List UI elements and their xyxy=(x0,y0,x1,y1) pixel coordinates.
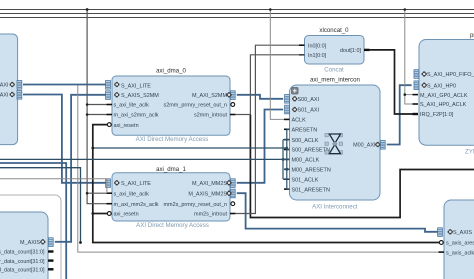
junction LA on reset vertical xyxy=(91,147,94,150)
svg-text:Concat: Concat xyxy=(324,67,344,74)
block left interconnect (partial) xyxy=(0,34,18,145)
wire clock/reset rail 1 xyxy=(0,9,474,11)
junction clock dma0 a xyxy=(86,103,89,106)
port stub fifo M_AXIS xyxy=(48,238,53,247)
svg-text:M_AXI_GP0_ACLK: M_AXI_GP0_ACLK xyxy=(420,93,468,99)
port stub ps7 S_AXI_HP0 xyxy=(414,81,419,90)
svg-text:s_axi_lite_aclk: s_axi_lite_aclk xyxy=(114,103,150,109)
port stub dma0 S_AXI_LITE xyxy=(106,81,111,90)
svg-text:S_AXI_LITE: S_AXI_LITE xyxy=(121,181,151,187)
wire clock branch dma0 lite aclk xyxy=(87,104,106,106)
wire LA vertical at intercon xyxy=(286,129,288,189)
wire B2 left_ic M01_AXI to dma1 S_AXI_LITE xyxy=(23,95,106,183)
port stub left_ic M01_AXI xyxy=(17,91,22,100)
junction LA M00_ARESETN xyxy=(285,168,288,171)
svg-text:s_axi_lite_aclk: s_axi_lite_aclk xyxy=(114,191,150,197)
junction L1 xyxy=(282,158,285,161)
svg-text:S01_ACLK: S01_ACLK xyxy=(292,177,319,183)
port stub fifo rd_data_count xyxy=(48,268,54,270)
port stub intercon M00_AXI xyxy=(380,141,385,150)
wire In1 upper from dma0 introut xyxy=(250,55,304,115)
svg-text:M_AXI_MM2S: M_AXI_MM2S xyxy=(192,181,227,187)
wire clock vertical to dma clocks xyxy=(87,10,106,204)
port stub dma0 s_axi_lite_aclk xyxy=(107,104,113,106)
svg-text:s_axis_aclk: s_axis_aclk xyxy=(446,250,474,256)
port stub intercon S00_AXI xyxy=(285,95,290,104)
svg-text:S00_AXI: S00_AXI xyxy=(298,97,320,103)
port stub fifo wr_data_count xyxy=(48,259,54,261)
svg-text:In1[0:0]: In1[0:0] xyxy=(308,53,327,59)
port stub dma1 axi_resetn bubble xyxy=(107,212,111,216)
wire B1 left_ic M00_AXI to dma0 S_AXI_LITE xyxy=(23,84,106,86)
svg-text:S_AXI_LITE: S_AXI_LITE xyxy=(121,83,151,89)
junction VA rail xyxy=(269,8,272,11)
port stub dma1 M_AXI_MM2S xyxy=(230,179,235,188)
port stub fifoR s_axis_aclk xyxy=(439,251,445,253)
port stub intercon ARESETN xyxy=(284,128,290,130)
wire L2 blue from left edge down xyxy=(0,163,66,279)
port stub intercon S01_ARESETN xyxy=(284,188,290,190)
junction clock dma0 b xyxy=(86,113,89,116)
wire K1 concat dout to ps7 IRQ_F2P xyxy=(369,50,413,114)
svg-text:M00_ARESETN: M00_ARESETN xyxy=(292,168,331,174)
wire VA rail to intercon ACLK xyxy=(270,10,284,120)
junction clock rail xyxy=(86,8,89,11)
port stub ps7 M_AXI_GP0_ACLK xyxy=(413,94,419,96)
wire L3 stub M00_ARESETN xyxy=(284,168,287,170)
wire LA reset trunk to intercon aresetns xyxy=(93,147,287,149)
svg-text:axis_wr_data_count[31:0]: axis_wr_data_count[31:0] xyxy=(0,259,45,265)
port stub ps7 IRQ_F2P (bus) xyxy=(413,113,419,115)
port stub concat dout (bus) xyxy=(364,49,370,51)
svg-text:axis_rd_data_count[31:0]: axis_rd_data_count[31:0] xyxy=(0,268,45,274)
svg-text:axi_dma_1: axi_dma_1 xyxy=(156,166,186,173)
wire B7 dma1 M_AXIS_MM2S to fifoR S_AXIS xyxy=(237,193,438,232)
junction LA corner xyxy=(285,147,288,150)
svg-text:M_AXIS: M_AXIS xyxy=(20,240,40,246)
junction reset dma1 xyxy=(91,212,94,215)
svg-text:AXI Interconnect: AXI Interconnect xyxy=(312,204,358,211)
wire aclk dogleg to dma1 lite clock xyxy=(0,179,107,193)
wire B4 dma0 M_AXI_S2MM to intercon S00_AXI xyxy=(237,95,283,99)
junction clock dma1 a xyxy=(86,192,89,195)
svg-text:AXI: AXI xyxy=(0,83,9,89)
port stub dma0 s2mm_introut xyxy=(230,114,236,116)
port stub intercon ACLK xyxy=(284,118,290,120)
wire clock2 vertical to fifoR aclk xyxy=(78,85,439,252)
block axi_mem_intercon xyxy=(290,77,381,211)
svg-text:AXI Direct Memory Access: AXI Direct Memory Access xyxy=(136,222,209,229)
port stub dma1 m_axi_mm2s_aclk xyxy=(107,203,113,205)
svg-text:axi_mem_intercon: axi_mem_intercon xyxy=(310,77,360,84)
svg-text:xlconcat_0: xlconcat_0 xyxy=(319,27,349,34)
port stub dma0 axi_resetn (active-low bubble) xyxy=(107,123,111,127)
svg-text:S00_ARESETN: S00_ARESETN xyxy=(292,148,330,154)
port stub intercon M00_ACLK xyxy=(284,158,290,160)
svg-text:S01_ARESETN: S01_ARESETN xyxy=(292,187,330,193)
wire clock branch dma1 lite aclk xyxy=(87,192,106,194)
wire B6 intercon M00_AXI to ps7 S_AXI_HP0 xyxy=(387,85,412,144)
port stub ps7 S_AXI_HP0_FIFO_CTRL xyxy=(414,70,419,79)
port stub intercon S00_ACLK xyxy=(284,139,290,141)
svg-text:mm2s_prmry_reset_out_n: mm2s_prmry_reset_out_n xyxy=(164,202,227,208)
wire ps7 clock branch gp0 xyxy=(405,94,413,96)
port stub dma1 mm2s_prmry_reset_out_n bubble xyxy=(231,202,235,206)
port stub dma0 S_AXIS_S2MM xyxy=(106,91,111,100)
port stub intercon S00_ARESETN xyxy=(284,149,290,151)
svg-text:M00_AXI: M00_AXI xyxy=(353,143,376,149)
port stub dma1 S_AXI_LITE xyxy=(106,179,111,188)
wire L1 clock from left edge to M00_ACLK xyxy=(0,158,290,160)
block processing_system7 (partial right) xyxy=(419,32,474,156)
svg-text:mm2s_introut: mm2s_introut xyxy=(194,212,227,218)
svg-text:axis_data_count[31:0]: axis_data_count[31:0] xyxy=(0,250,45,256)
svg-text:M00_ACLK: M00_ACLK xyxy=(292,158,320,164)
svg-text:S_AXIS_S2MM: S_AXIS_S2MM xyxy=(121,93,159,99)
svg-text:S00_ACLK: S00_ACLK xyxy=(292,138,319,144)
svg-text:m_axi_s2mm_aclk: m_axi_s2mm_aclk xyxy=(114,113,159,119)
wire rail 3 xyxy=(0,17,474,19)
svg-text:s_axis_aresetn: s_axis_aresetn xyxy=(446,241,474,247)
hierarchy boundary box around fifo xyxy=(0,195,61,279)
junction ps7 clock rail xyxy=(404,8,407,11)
svg-text:In0[0:0]: In0[0:0] xyxy=(308,43,327,49)
wire B3 fifo M_AXIS to dma0 S_AXIS_S2MM xyxy=(55,95,106,242)
wire K2 wrap net lower xyxy=(250,115,474,218)
svg-text:axi_resetn: axi_resetn xyxy=(114,123,139,129)
svg-text:M_AXIS_MM2S: M_AXIS_MM2S xyxy=(188,191,227,197)
port stub dma1 mm2s_introut xyxy=(230,213,236,215)
port stub dma1 s_axi_lite_aclk xyxy=(107,192,113,194)
block axi_dma_0 xyxy=(112,68,230,143)
wire B5 dma1 M_AXI_MM2S to intercon S01_AXI xyxy=(237,110,283,183)
svg-text:S_AXI_HP0: S_AXI_HP0 xyxy=(427,83,456,89)
wire rail 2 xyxy=(0,13,474,15)
port stub ps7 S_AXI_HP0_ACLK xyxy=(413,103,419,105)
port stub intercon S01_ACLK xyxy=(284,178,290,180)
port stub dma1 M_AXIS_MM2S xyxy=(230,189,235,198)
svg-text:AXI Direct Memory Access: AXI Direct Memory Access xyxy=(136,136,209,143)
port stub intercon M00_ARESETN xyxy=(284,168,290,170)
svg-text:AXI: AXI xyxy=(0,93,9,99)
svg-text:ACLK: ACLK xyxy=(292,118,307,124)
svg-text:ARESETN: ARESETN xyxy=(292,128,318,134)
port stub dma0 s2mm_prmry_reset_out_n bubble xyxy=(231,103,235,107)
wire K3 reset net xyxy=(93,125,440,243)
svg-text:axi_dma_0: axi_dma_0 xyxy=(156,68,186,75)
junction L3 xyxy=(285,168,288,171)
port stub fifoR S_AXIS xyxy=(438,228,443,237)
wire dma0 s2mm_introut branch xyxy=(235,114,250,116)
svg-text:processing_system7_0: processing_system7_0 xyxy=(470,32,474,39)
port stub fifoR s_axis_aresetn bubble xyxy=(439,241,443,245)
svg-text:s2mm_introut: s2mm_introut xyxy=(194,113,227,119)
svg-text:S_AXIS: S_AXIS xyxy=(453,230,472,236)
wire K3 branch dma1 resetn xyxy=(93,213,108,215)
svg-text:m_axi_mm2s_aclk: m_axi_mm2s_aclk xyxy=(114,202,159,208)
svg-text:dout[1:0]: dout[1:0] xyxy=(340,48,362,54)
port stub dma0 M_AXI_S2MM xyxy=(230,91,235,100)
block xlconcat_0 xyxy=(305,27,365,74)
port stub dma0 m_axi_s2mm_aclk xyxy=(107,114,113,116)
wire In0 from dma1 mm2s_introut xyxy=(235,45,299,213)
wire L3 reset from left edge down to bottom resets xyxy=(0,168,81,243)
wire ps7 clock vertical xyxy=(405,10,413,105)
block axis fifo right-bottom (partial) xyxy=(444,200,474,279)
port stub intercon S01_AXI xyxy=(285,105,290,114)
svg-text:S_AXI_HP0_ACLK: S_AXI_HP0_ACLK xyxy=(420,102,467,108)
wire L1 branch vertical S00_ACLK S01_ACLK xyxy=(282,140,284,180)
intercon expand button xyxy=(292,88,299,95)
junction ps7 clock gp0 xyxy=(404,93,407,96)
port stub concat In1 xyxy=(299,54,305,56)
wire clock branch dma0 s2mm aclk xyxy=(87,114,106,116)
block axis_data_fifo left-bottom (partial) xyxy=(0,212,48,279)
svg-text:IRQ_F2P[1:0]: IRQ_F2P[1:0] xyxy=(420,112,454,118)
svg-text:S01_AXI: S01_AXI xyxy=(298,108,320,114)
port stub concat In0 xyxy=(299,44,305,46)
block axi_dma_1 xyxy=(112,166,230,229)
intercon crossbar icon xyxy=(325,134,343,155)
svg-text:ZYNQ7 P: ZYNQ7 P xyxy=(465,149,474,156)
port stub fifo axis_data_count xyxy=(48,250,54,252)
port stub left_ic M00_AXI xyxy=(17,81,22,90)
svg-text:M_AXI_S2MM: M_AXI_S2MM xyxy=(192,93,228,99)
svg-text:s2mm_prmry_reset_out_n: s2mm_prmry_reset_out_n xyxy=(164,103,227,109)
svg-text:axi_resetn: axi_resetn xyxy=(114,212,139,218)
junction L3 bottom xyxy=(79,241,82,244)
svg-text:S_AXI_HP0_FIFO_CTRL: S_AXI_HP0_FIFO_CTRL xyxy=(427,72,474,78)
